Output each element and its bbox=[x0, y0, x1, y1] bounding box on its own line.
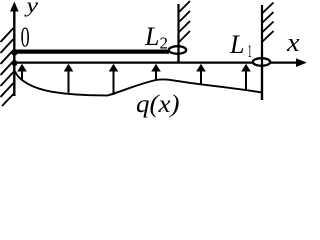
label q(x) bbox=[136, 91, 180, 118]
svg-text:2: 2 bbox=[160, 34, 169, 53]
beam bbox=[14, 49, 170, 53]
label y bbox=[24, 0, 38, 17]
svg-text:L: L bbox=[144, 22, 159, 51]
y-axis bbox=[10, 2, 19, 97]
junction dot beam-wall bbox=[12, 50, 18, 56]
svg-text:y: y bbox=[24, 0, 38, 17]
distributed load arrow 3 bbox=[109, 64, 119, 95]
hatching at L1 wall bbox=[263, 3, 274, 42]
svg-text:q(x): q(x) bbox=[136, 91, 180, 118]
svg-text:L: L bbox=[229, 30, 244, 59]
roller ellipse at L2 bbox=[169, 44, 186, 62]
distributed load arrow 5 bbox=[196, 64, 206, 85]
distributed load arrow 2 bbox=[64, 64, 74, 93]
label x bbox=[286, 28, 300, 57]
svg-text:1: 1 bbox=[248, 41, 252, 61]
distributed load arrow 1 bbox=[17, 64, 27, 80]
wall at L1 bbox=[261, 5, 263, 100]
svg-text:x: x bbox=[286, 28, 300, 57]
label L1 bbox=[229, 30, 252, 61]
distributed load arrow 4 bbox=[151, 64, 161, 80]
x-axis bbox=[14, 58, 307, 67]
label L2 bbox=[144, 22, 168, 53]
junction dot axis-wall bbox=[12, 60, 18, 66]
wall at L2 bbox=[177, 4, 179, 62]
svg-text:0: 0 bbox=[21, 22, 30, 54]
distributed load arrow 6 bbox=[241, 64, 251, 90]
hatching at L2 wall bbox=[179, 1, 190, 42]
load intensity curve q(x) bbox=[15, 72, 262, 96]
left wall hatching bbox=[1, 28, 14, 106]
roller ellipse at L1 bbox=[253, 55, 270, 100]
origin label 0 bbox=[21, 22, 30, 54]
